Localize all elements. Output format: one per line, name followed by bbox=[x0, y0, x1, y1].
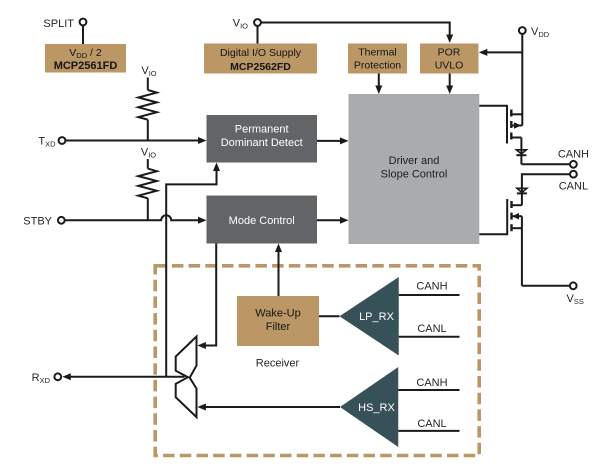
wire HS_RX CANH input bbox=[398, 377, 459, 390]
diode D2 (CANL to Q2 drain) bbox=[517, 188, 527, 205]
svg-text:HS_RX: HS_RX bbox=[358, 402, 395, 414]
terminal CANL bbox=[559, 171, 588, 193]
wire Wake-Up Filter to Mode Control bbox=[275, 244, 282, 297]
diode D1 (Q1 drain to CANH) bbox=[516, 150, 526, 165]
wire LP_RX CANL input bbox=[399, 323, 460, 337]
wire PDD to Driver bbox=[317, 140, 342, 142]
wire RXD feedback to PDD bbox=[166, 163, 220, 377]
svg-text:MCP2562FD: MCP2562FD bbox=[230, 61, 291, 73]
svg-text:Dominant Detect: Dominant Detect bbox=[221, 137, 303, 149]
svg-text:POR: POR bbox=[438, 47, 461, 59]
wire TXD to Permanent Dominant Detect bbox=[66, 140, 200, 142]
svg-text:Slope Control: Slope Control bbox=[381, 169, 448, 181]
svg-text:Wake-Up: Wake-Up bbox=[255, 308, 300, 320]
transistor Q1 (high-side MOSFET) bbox=[507, 105, 522, 155]
wire POR to Driver bbox=[449, 74, 451, 88]
wire to CANH terminal bbox=[521, 163, 570, 165]
wire HS_RX output to mux bbox=[197, 404, 340, 411]
terminal VIO (supply) bbox=[233, 18, 261, 31]
terminal TXD bbox=[38, 136, 65, 149]
block Driver and Slope Control bbox=[349, 94, 480, 244]
svg-text:Receiver: Receiver bbox=[256, 358, 300, 370]
block U1 Vdd/2 MCP2561FD bbox=[45, 44, 126, 73]
block Permanent Dominant Detect bbox=[207, 115, 318, 163]
wire CANL to D2 bbox=[522, 174, 570, 193]
terminal SPLIT bbox=[43, 18, 86, 30]
svg-text:CANH: CANH bbox=[416, 281, 447, 293]
comparator HS_RX bbox=[340, 367, 398, 447]
wire Mode Control to mux select bbox=[197, 244, 216, 350]
wire HS_RX CANL input bbox=[398, 418, 459, 431]
wire LP_RX output to Wake-Up Filter bbox=[319, 315, 340, 317]
block Mode Control bbox=[207, 196, 318, 244]
wire VDD rail down bbox=[521, 34, 523, 126]
svg-text:LP_RX: LP_RX bbox=[359, 311, 395, 323]
svg-text:Permanent: Permanent bbox=[235, 124, 289, 136]
block U2 Digital I/O Supply MCP2562FD bbox=[204, 44, 317, 74]
block Wake-Up Filter bbox=[237, 296, 319, 346]
svg-text:CANL: CANL bbox=[417, 418, 446, 430]
svg-text:Thermal: Thermal bbox=[358, 47, 397, 59]
terminal STBY bbox=[23, 216, 64, 228]
svg-text:MCP2561FD: MCP2561FD bbox=[54, 60, 118, 72]
svg-text:CANL: CANL bbox=[417, 323, 446, 335]
svg-text:UVLO: UVLO bbox=[435, 60, 464, 72]
svg-text:STBY: STBY bbox=[23, 216, 52, 228]
wire VIO to MCP2562FD block bbox=[257, 26, 259, 44]
wire VIO rail to POR/UVLO bbox=[261, 23, 450, 37]
mux (receiver output select) bbox=[176, 337, 197, 418]
terminal RXD bbox=[32, 372, 62, 385]
svg-text:Mode Control: Mode Control bbox=[229, 215, 295, 227]
terminal CANH bbox=[558, 149, 589, 168]
svg-text:Driver and: Driver and bbox=[389, 155, 440, 167]
block Thermal Protection bbox=[348, 44, 407, 74]
terminal VSS bbox=[567, 282, 584, 306]
block POR UVLO bbox=[420, 44, 479, 74]
resistor R2 (VIO pull-up on STBY) bbox=[138, 147, 157, 221]
svg-text:SPLIT: SPLIT bbox=[43, 18, 74, 30]
wire Q2 source to VSS bbox=[522, 285, 570, 287]
wire VDD to POR/UVLO bbox=[486, 51, 522, 53]
svg-text:Filter: Filter bbox=[266, 321, 291, 333]
wire SPLIT to MCP2561FD block bbox=[82, 26, 84, 45]
wire Thermal Protection to Driver bbox=[378, 74, 380, 88]
wire Driver to Q2 gate bbox=[479, 233, 507, 235]
transistor Q2 (low-side MOSFET) bbox=[507, 199, 522, 286]
svg-text:Digital I/O Supply: Digital I/O Supply bbox=[220, 47, 302, 59]
wire LP_RX CANH input bbox=[399, 281, 460, 296]
comparator LP_RX bbox=[340, 277, 399, 356]
svg-text:CANH: CANH bbox=[558, 149, 589, 161]
wire Mode Control to Driver bbox=[317, 219, 342, 221]
terminal VDD bbox=[519, 26, 550, 39]
receiver dashed boundary bbox=[155, 266, 479, 456]
wire mux to RXD bbox=[69, 376, 185, 378]
svg-text:Protection: Protection bbox=[354, 60, 401, 72]
wire Driver to Q1 gate bbox=[479, 105, 507, 107]
resistor R1 (VIO pull-up on TXD) bbox=[138, 65, 157, 141]
svg-text:CANH: CANH bbox=[416, 377, 447, 389]
svg-text:CANL: CANL bbox=[559, 181, 588, 193]
wire STBY to Mode Control (hop over feedback line) bbox=[65, 215, 200, 220]
